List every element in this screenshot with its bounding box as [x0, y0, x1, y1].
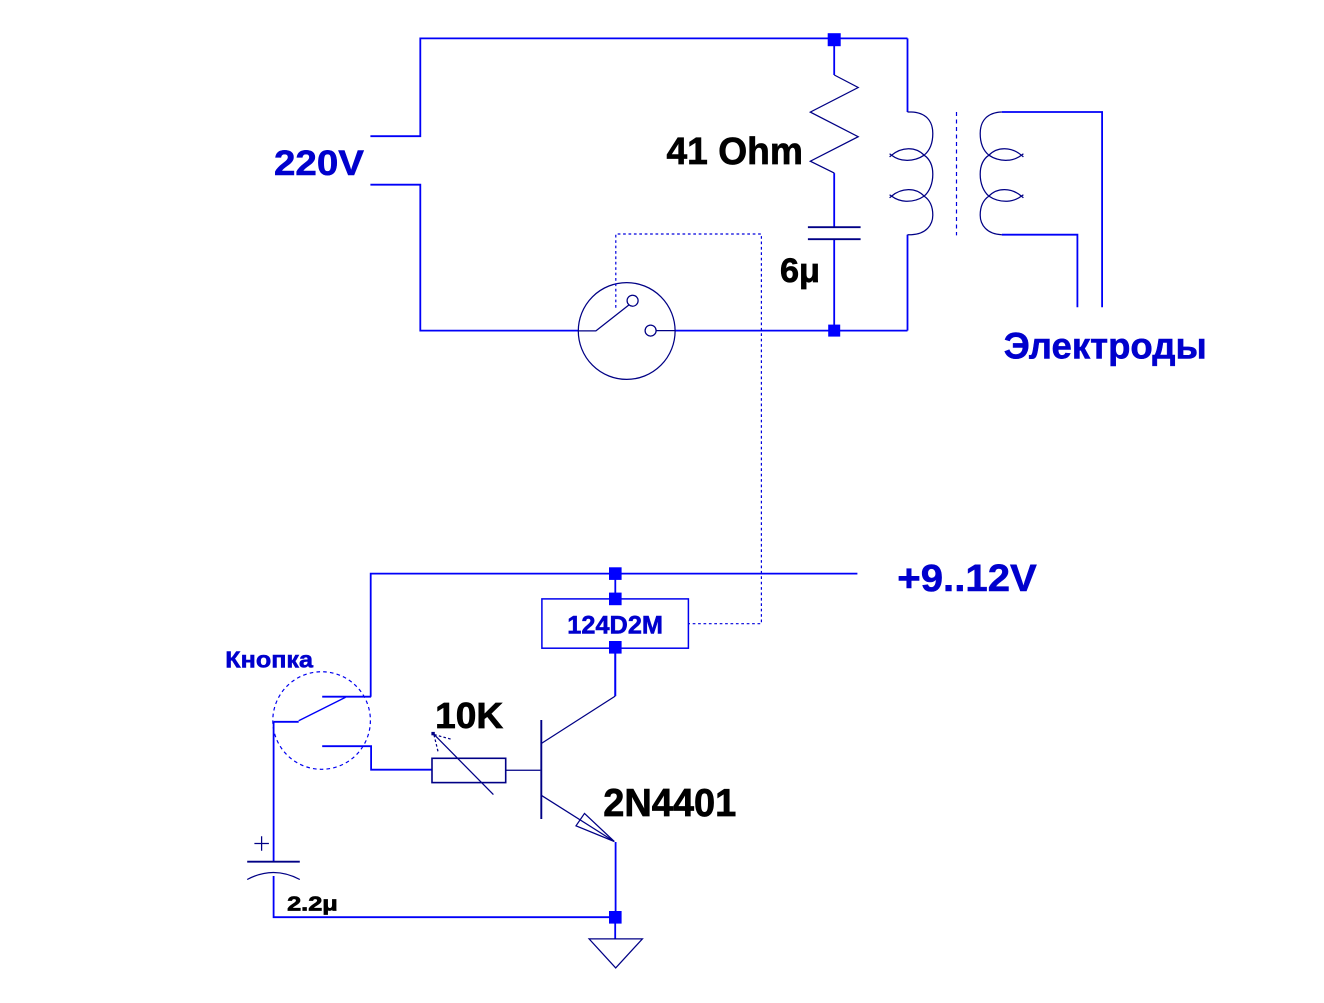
- svg-text:124D2M: 124D2M: [567, 611, 663, 639]
- svg-text:2.2μ: 2.2μ: [287, 894, 338, 916]
- svg-text:Электроды: Электроды: [1004, 325, 1207, 367]
- svg-text:6μ: 6μ: [780, 252, 820, 290]
- svg-text:+9..12V: +9..12V: [897, 558, 1037, 600]
- svg-text:2N4401: 2N4401: [603, 782, 736, 825]
- svg-text:41 Ohm: 41 Ohm: [667, 131, 803, 173]
- svg-text:10K: 10K: [435, 695, 503, 736]
- svg-text:220V: 220V: [274, 144, 365, 183]
- svg-text:Кнопка: Кнопка: [225, 647, 313, 673]
